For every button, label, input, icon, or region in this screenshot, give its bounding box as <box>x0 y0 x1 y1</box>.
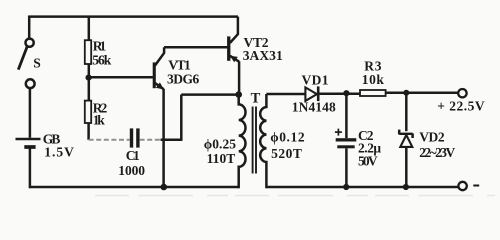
svg-text:1.5V: 1.5V <box>44 145 74 160</box>
junction VT1 emitter / bottom rail <box>161 184 168 191</box>
transformer T secondary winding <box>260 94 266 188</box>
transistor VT2 <box>227 17 239 63</box>
battery GB negative plate <box>24 145 35 149</box>
junction VD2 branch <box>403 90 409 96</box>
wire feedback top <box>181 93 238 96</box>
junction C2 / bottom rail <box>343 184 349 190</box>
diode VD1 <box>305 86 318 101</box>
svg-text:+ 22.5V: + 22.5V <box>437 99 485 114</box>
wire battery to bottom rail <box>29 148 32 188</box>
wire base node to VT1 base <box>89 76 153 79</box>
svg-text:C1: C1 <box>126 148 140 163</box>
svg-text:R1: R1 <box>93 39 107 54</box>
switch S <box>18 39 34 88</box>
junction C2 branch <box>343 90 349 96</box>
terminal minus output <box>458 182 466 190</box>
svg-text:1000: 1000 <box>118 163 145 178</box>
junction VD2 / bottom rail <box>403 184 409 190</box>
wire C1 to feedback corner <box>140 139 161 141</box>
wire R1 top <box>88 17 91 41</box>
transformer T core <box>253 107 256 174</box>
C2 polarity plus mark <box>335 129 342 136</box>
wire R2 to C1 <box>89 139 130 141</box>
svg-text:22~23V: 22~23V <box>419 145 455 160</box>
capacitor C1 <box>130 128 140 147</box>
wire feedback lower <box>161 139 182 142</box>
svg-text:3AX31: 3AX31 <box>243 48 283 63</box>
svg-text:10k: 10k <box>362 72 385 87</box>
svg-text:3DG6: 3DG6 <box>167 71 199 86</box>
wire R2 bottom <box>87 123 90 140</box>
wire VT1 collector to VT2 base <box>164 46 227 49</box>
wire VT2 emitter down <box>238 61 241 94</box>
wire bottom rail left <box>29 186 239 189</box>
svg-text:VD2: VD2 <box>419 129 445 144</box>
wire R3 to plus terminal <box>386 91 459 94</box>
wire VD1 to R3 <box>318 92 360 95</box>
svg-text:50V: 50V <box>358 154 378 169</box>
wire bottom rail right <box>266 186 458 189</box>
junction node T <box>235 91 242 98</box>
wire secondary top to VD1 <box>266 93 305 96</box>
wire VT1 emitter down <box>162 89 165 187</box>
svg-text:VT1: VT1 <box>168 57 191 72</box>
wire left rail upper <box>28 16 31 39</box>
zener diode VD2 <box>399 93 412 187</box>
resistor R2 <box>85 101 91 123</box>
transistor VT1 <box>153 47 164 89</box>
svg-text:1N4148: 1N4148 <box>292 99 336 114</box>
resistor R1 <box>85 40 91 64</box>
scan artifact faint line <box>95 195 495 197</box>
svg-text:1k: 1k <box>93 113 105 128</box>
terminal plus output <box>458 89 466 97</box>
label minus sign <box>473 185 479 187</box>
svg-text:VD1: VD1 <box>302 72 329 87</box>
transformer T primary winding <box>239 95 246 189</box>
wire feedback vertical <box>180 95 183 141</box>
capacitor C2 <box>336 93 357 187</box>
svg-text:520T: 520T <box>271 146 302 161</box>
battery GB positive plate <box>16 138 41 140</box>
junction R1/R2/base node <box>86 75 92 81</box>
wire switch to battery <box>29 88 32 138</box>
resistor R3 <box>360 90 386 96</box>
wire R1 to base node <box>88 64 91 101</box>
svg-text:S: S <box>33 55 41 70</box>
svg-text:ϕ0.12: ϕ0.12 <box>270 130 305 145</box>
svg-text:T: T <box>251 91 261 107</box>
wire top rail <box>29 15 238 18</box>
svg-text:ϕ0.25: ϕ0.25 <box>204 137 237 152</box>
svg-text:56k: 56k <box>92 52 111 67</box>
svg-text:110T: 110T <box>207 151 236 166</box>
